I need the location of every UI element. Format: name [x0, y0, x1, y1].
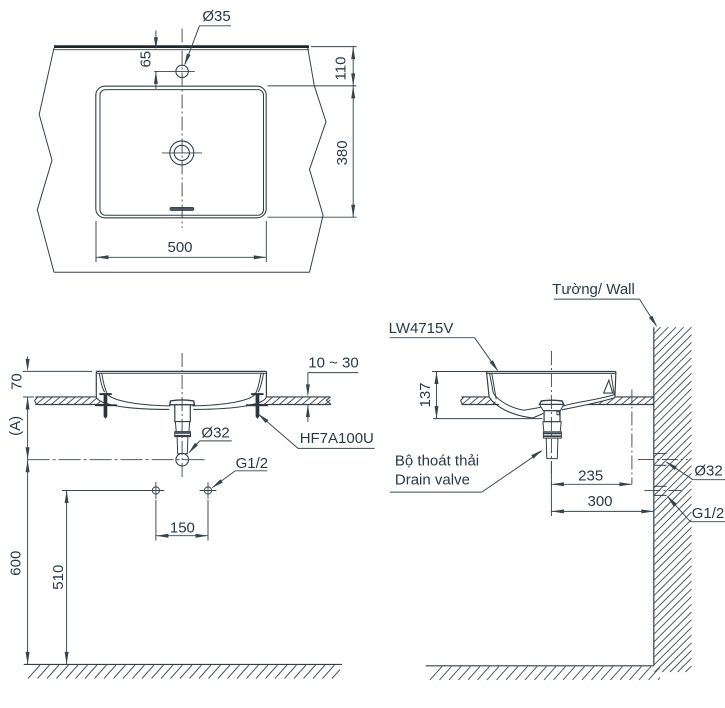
- front view drain horizontal centerline: [28, 459, 207, 461]
- label Bo thoat thai / Drain valve: [390, 450, 543, 492]
- svg-text:70: 70: [8, 373, 25, 390]
- label G1/2 (wall): [667, 496, 725, 523]
- sink basin inner rim (plan): [100, 90, 264, 216]
- svg-text:Ø32: Ø32: [201, 425, 229, 442]
- svg-text:300: 300: [587, 493, 612, 510]
- sink basin outer rim (plan): [96, 86, 266, 218]
- svg-text:Ø32: Ø32: [694, 462, 722, 479]
- dimension 65: [137, 31, 158, 90]
- G1/2 supply holes (front): [148, 482, 217, 499]
- left mounting clamp: [95, 393, 117, 419]
- svg-text:600: 600: [7, 551, 24, 576]
- dimension (A): [7, 397, 30, 460]
- dimension 70: [8, 357, 92, 398]
- faucet hole: [154, 65, 195, 77]
- drain outlet circle diameter 32: [176, 453, 189, 466]
- overflow channel triangle (side): [604, 380, 613, 393]
- counter slab (front view, hatched): [35, 397, 332, 405]
- svg-text:510: 510: [50, 565, 67, 590]
- label Tuong / Wall: [552, 281, 657, 327]
- svg-text:Tường/ Wall: Tường/ Wall: [552, 281, 635, 298]
- dimension 110: [311, 47, 357, 86]
- drain assembly (side view): [540, 400, 564, 458]
- vertical centerline (plan): [181, 29, 183, 229]
- counter slab (side view, hatched): [461, 397, 654, 405]
- sink basin body (front view): [96, 371, 266, 409]
- svg-text:Bộ thoát thải: Bộ thoát thải: [395, 452, 479, 469]
- overflow slot: [170, 207, 194, 210]
- svg-text:G1/2: G1/2: [692, 505, 725, 522]
- counter top (plan view) with break-line edges: [37, 48, 326, 273]
- side view vertical centerline: [550, 351, 552, 473]
- svg-text:LW4715V: LW4715V: [389, 320, 454, 337]
- wall (hatched): [654, 327, 692, 672]
- wall hole centerline G1/2: [644, 486, 681, 495]
- svg-text:Drain valve: Drain valve: [395, 472, 470, 489]
- svg-text:65: 65: [137, 51, 154, 68]
- dimension 137: [417, 372, 543, 419]
- svg-text:G1/2: G1/2: [236, 455, 269, 472]
- drain assembly (front view): [170, 400, 195, 466]
- front view vertical centerline: [181, 353, 183, 479]
- label diameter 32 (wall): [665, 461, 725, 479]
- svg-text:110: 110: [332, 57, 349, 81]
- floor line (front view, hatched): [24, 664, 342, 678]
- svg-text:150: 150: [170, 520, 195, 537]
- dimension 380: [268, 86, 357, 217]
- label HF7A100U fitting: [258, 413, 375, 448]
- dimension 510: [50, 491, 149, 665]
- dimension 500: [96, 221, 266, 262]
- svg-text:235: 235: [578, 468, 603, 485]
- svg-text:10 ~ 30: 10 ~ 30: [308, 355, 358, 372]
- label diameter 32 drain (front): [188, 425, 231, 454]
- right mounting clamp: [246, 393, 268, 419]
- floor line (side view, hatched): [426, 666, 660, 680]
- dimension 600: [7, 460, 29, 665]
- svg-text:HF7A100U: HF7A100U: [300, 430, 374, 447]
- leader LW4715V: [390, 338, 499, 372]
- label G1/2 (front): [212, 455, 269, 488]
- label LW4715V: [389, 320, 454, 337]
- wall hole centerline diameter 32: [638, 454, 688, 466]
- svg-text:380: 380: [334, 140, 351, 165]
- svg-text:Ø35: Ø35: [202, 8, 230, 25]
- label diameter 35 faucet hole: [184, 8, 231, 66]
- dimension 235: [551, 461, 632, 489]
- dimension 300: [551, 489, 653, 516]
- dimension 10 ~ 30: [306, 355, 359, 422]
- svg-text:500: 500: [167, 239, 192, 256]
- svg-text:(A): (A): [7, 416, 24, 436]
- drain hole (plan): [162, 141, 202, 165]
- wall hole vertical centerline at 235: [631, 390, 633, 485]
- dimension 150: [156, 500, 208, 541]
- svg-text:137: 137: [417, 382, 434, 407]
- sink basin body (side view): [487, 372, 616, 418]
- counter back edge (thick wall-side line): [54, 47, 309, 50]
